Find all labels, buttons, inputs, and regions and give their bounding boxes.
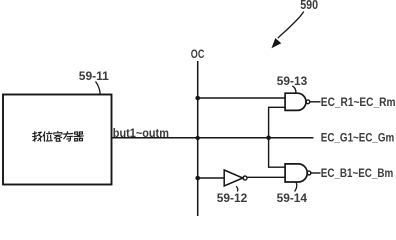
- wire out1~outm / EC_G line: [112, 137, 314, 139]
- junction branch / G line: [266, 136, 271, 141]
- bubble 59-13: [306, 100, 310, 104]
- nand gate 59-14: [285, 164, 307, 182]
- svg-text:EC_B1~EC_Bm: EC_B1~EC_Bm: [321, 167, 393, 180]
- char 位: [43, 132, 52, 142]
- output wire R: [310, 101, 321, 103]
- wire inverter output to NAND 59-14: [247, 176, 285, 178]
- pointer line 59-14: [295, 183, 297, 192]
- shift register box 59-11: [3, 95, 112, 185]
- char 存: [64, 132, 73, 141]
- inverter 59-12: [224, 170, 243, 186]
- svg-text:EC_G1~EC_Gm: EC_G1~EC_Gm: [321, 132, 395, 145]
- svg-text:59-11: 59-11: [79, 69, 109, 83]
- svg-text:59-13: 59-13: [277, 74, 308, 88]
- arrow to 590: [278, 12, 304, 39]
- svg-text:EC_R1~EC_Rm: EC_R1~EC_Rm: [321, 96, 396, 109]
- output wire B: [311, 172, 321, 174]
- svg-text:590: 590: [300, 0, 318, 12]
- branch vertical wire: [269, 107, 285, 167]
- wire OC vertical: [197, 61, 199, 216]
- wire OC to inverter input: [198, 177, 224, 179]
- char 寄: [54, 132, 62, 142]
- pointer line 59-12: [236, 186, 238, 191]
- pointer line 59-13: [292, 86, 296, 93]
- junction OC / inverter input: [195, 176, 200, 181]
- label 59-14: [277, 183, 308, 205]
- label 59-11: [79, 69, 109, 94]
- svg-text:OC: OC: [191, 48, 205, 62]
- junction OC / G line: [196, 136, 200, 140]
- wire OC to NAND 59-13 top input: [198, 97, 285, 99]
- arrowhead 590: [272, 39, 280, 48]
- svg-text:but1~outm: but1~outm: [113, 128, 169, 141]
- box text 移位寄存器: [33, 132, 84, 142]
- pointer line 59-11: [96, 82, 101, 95]
- label 59-13: [277, 74, 308, 93]
- nand gate 59-13: [285, 93, 306, 110]
- bubble 59-14: [307, 171, 311, 175]
- svg-text:59-12: 59-12: [217, 191, 248, 205]
- svg-text:59-14: 59-14: [277, 191, 308, 205]
- label 59-12: [217, 186, 248, 205]
- char 移: [33, 132, 42, 142]
- bubble 59-12: [243, 176, 247, 180]
- char 器: [74, 132, 83, 141]
- junction OC / R-input: [195, 96, 200, 101]
